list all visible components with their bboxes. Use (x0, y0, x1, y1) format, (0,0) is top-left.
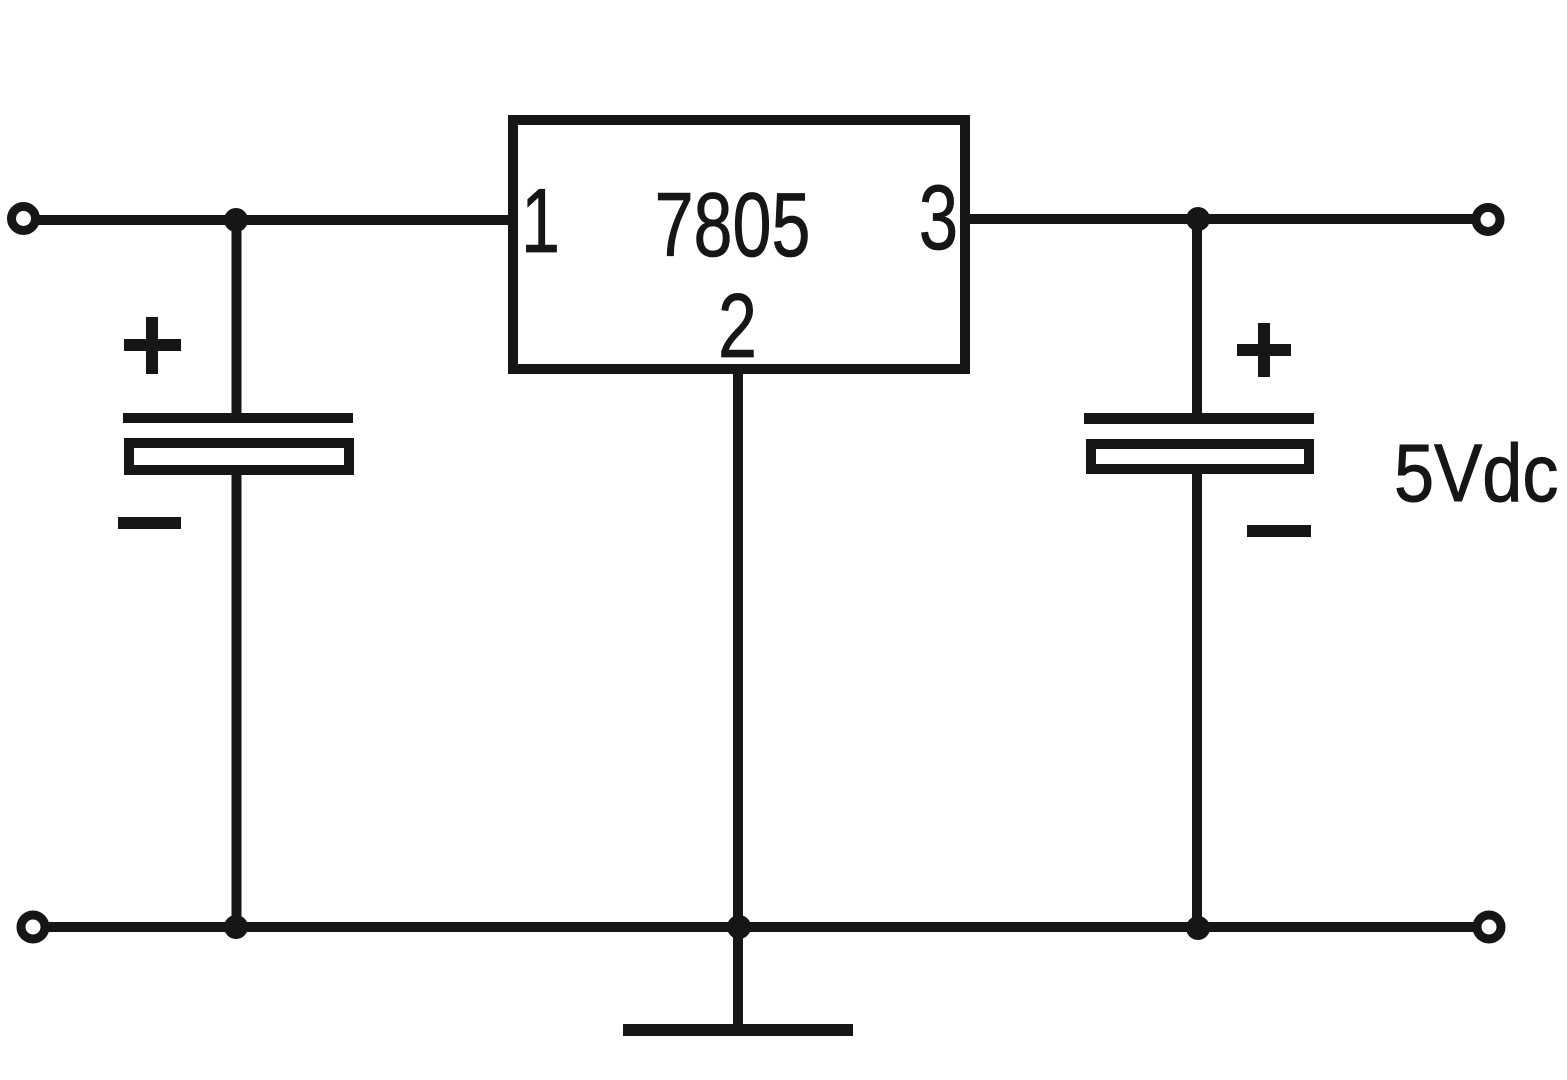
svg-text:1: 1 (521, 170, 560, 272)
capacitor C2 positive plate (1084, 413, 1314, 424)
node: junction dot bottom center (727, 915, 751, 939)
node: junction dot top right (1186, 207, 1210, 231)
minus polarity mark of C1 (118, 517, 181, 529)
wire: top rail left (input terminal to 7805 pin 1) (23, 215, 512, 225)
node: junction dot bottom left (224, 915, 248, 939)
svg-text:3: 3 (919, 167, 958, 269)
minus polarity mark of C2 (1247, 525, 1311, 537)
ground symbol (623, 1024, 853, 1036)
wire: left capacitor branch lower (232, 474, 242, 932)
wire: pin 2 down to ground (733, 374, 743, 1024)
wire: right capacitor branch upper (1192, 216, 1202, 413)
wire: left capacitor branch upper (232, 216, 242, 413)
svg-text:5Vdc: 5Vdc (1394, 428, 1558, 519)
capacitor C1 negative plate (129, 443, 349, 470)
regulator U1 7805 box (513, 120, 965, 369)
input terminal top-left (12, 207, 36, 231)
wire: top rail right (7805 pin 3 to output terminal) (966, 214, 1490, 224)
svg-text:2: 2 (718, 275, 757, 377)
node: junction dot bottom right (1186, 916, 1210, 940)
input terminal bottom-left (21, 915, 45, 939)
plus polarity mark of C2 (1237, 323, 1291, 377)
output terminal bottom-right (1477, 915, 1501, 939)
node: junction dot top left (224, 208, 248, 232)
plus polarity mark of C1 (124, 317, 181, 374)
capacitor C1 positive plate (123, 413, 353, 423)
capacitor C2 negative plate (1091, 444, 1309, 469)
svg-text:7805: 7805 (655, 174, 811, 276)
output terminal top-right (1476, 208, 1500, 232)
wire: right capacitor branch lower (1192, 474, 1202, 932)
wire: bottom rail (33, 922, 1489, 932)
